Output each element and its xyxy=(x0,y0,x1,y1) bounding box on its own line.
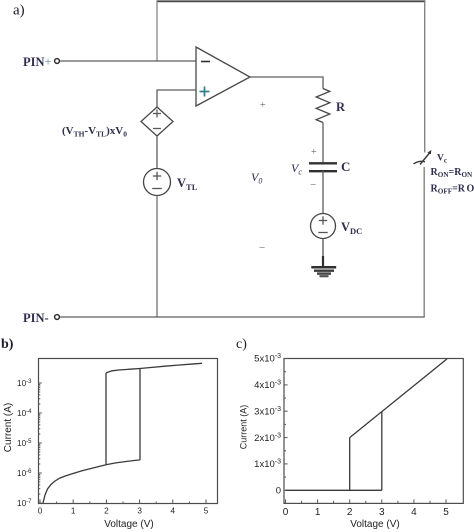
svg-text:V0: V0 xyxy=(251,170,262,186)
op-amp U1 xyxy=(196,47,250,106)
svg-text:Current (A): Current (A) xyxy=(3,403,14,452)
svg-text:−: − xyxy=(259,242,265,254)
svg-text:Vc: Vc xyxy=(291,161,302,177)
svg-text:Current (A): Current (A) xyxy=(239,405,249,450)
capacitor C xyxy=(309,163,337,171)
plot c y tick labels xyxy=(254,353,281,496)
plot b x-axis ticks xyxy=(40,500,206,504)
svg-text:a): a) xyxy=(13,3,25,19)
device box top edge xyxy=(157,0,426,2)
wire resistor to capacitor xyxy=(322,123,324,163)
wire VDC to ground xyxy=(322,239,324,267)
wire PIN- rail / device box bottom edge xyxy=(60,316,425,318)
svg-text:ROFF=RO: ROFF=RO xyxy=(431,184,474,196)
svg-text:Voltage (V): Voltage (V) xyxy=(104,519,153,530)
svg-text:2x10-3: 2x10-3 xyxy=(254,432,281,444)
svg-text:10-3: 10-3 xyxy=(17,379,32,388)
svg-text:PIN-: PIN- xyxy=(23,311,49,325)
plot c x tick labels xyxy=(283,507,450,518)
svg-text:10-7: 10-7 xyxy=(17,499,32,508)
svg-text:10-6: 10-6 xyxy=(17,469,32,478)
wire VTL to PIN- rail xyxy=(156,196,158,318)
PIN+ terminal xyxy=(55,59,60,64)
wire op-amp noninverting input xyxy=(157,90,196,107)
svg-text:c): c) xyxy=(236,337,247,352)
svg-text:VDC: VDC xyxy=(341,220,362,236)
svg-text:(VTH-VTL)xV0: (VTH-VTL)xV0 xyxy=(62,125,127,139)
svg-text:4: 4 xyxy=(171,507,176,516)
wire capacitor to VDC xyxy=(322,171,324,214)
svg-text:10-4: 10-4 xyxy=(17,409,32,418)
svg-text:1: 1 xyxy=(71,507,76,516)
svg-text:Voltage (V): Voltage (V) xyxy=(350,519,399,530)
dependent source E1 (VTH-VTL)xV0 xyxy=(141,107,173,136)
wire dependent source to VTL xyxy=(156,136,158,169)
svg-text:RON=RON: RON=RON xyxy=(431,167,474,179)
resistor R xyxy=(316,89,330,123)
ground xyxy=(311,256,336,276)
svg-text:10-5: 10-5 xyxy=(17,439,32,448)
svg-text:−: − xyxy=(310,179,316,191)
PIN- terminal xyxy=(55,315,60,320)
svg-text:3x10-3: 3x10-3 xyxy=(254,406,281,418)
svg-text:3: 3 xyxy=(379,507,385,518)
plot c y-axis ticks xyxy=(284,359,288,491)
plot b x tick labels xyxy=(38,507,209,516)
svg-text:1: 1 xyxy=(315,507,321,518)
svg-text:b): b) xyxy=(1,337,14,352)
svg-text:VTL: VTL xyxy=(177,176,198,192)
svg-text:0: 0 xyxy=(38,507,43,516)
svg-text:R: R xyxy=(336,100,346,114)
svg-text:3: 3 xyxy=(137,507,142,516)
svg-text:2: 2 xyxy=(347,507,353,518)
wire op-amp output to resistor xyxy=(250,77,323,89)
plot b hysteresis curve xyxy=(43,363,202,503)
switch SW (memristor state switch) xyxy=(414,150,432,165)
svg-text:0: 0 xyxy=(283,507,289,518)
plot c x-axis ticks xyxy=(286,499,447,503)
svg-text:+: + xyxy=(260,100,266,111)
device box left edge segment / wire to inverting input node xyxy=(156,1,158,61)
svg-text:5: 5 xyxy=(204,507,209,516)
svg-text:Vc: Vc xyxy=(437,154,447,165)
plot b y-axis ticks xyxy=(39,383,42,503)
plot c hysteresis curve xyxy=(286,359,448,490)
plot c frame xyxy=(284,359,463,504)
voltage source VDC xyxy=(311,214,336,239)
svg-text:C: C xyxy=(341,159,350,174)
plot b y tick labels xyxy=(17,379,32,508)
svg-text:1x10-3: 1x10-3 xyxy=(254,459,281,471)
svg-text:4x10-3: 4x10-3 xyxy=(254,380,281,392)
svg-text:+: + xyxy=(311,147,317,158)
svg-text:4: 4 xyxy=(411,507,417,518)
svg-text:5x10-3: 5x10-3 xyxy=(254,353,281,365)
svg-text:PIN+: PIN+ xyxy=(23,55,52,69)
wire PIN+ to op-amp inverting input xyxy=(60,60,196,62)
svg-text:5: 5 xyxy=(443,507,449,518)
device box right edge lower segment xyxy=(423,167,425,317)
svg-text:0: 0 xyxy=(276,486,281,497)
plot b frame xyxy=(39,359,218,504)
device box right edge upper segment xyxy=(424,1,426,152)
svg-text:2: 2 xyxy=(104,507,109,516)
voltage source VTL xyxy=(144,169,171,196)
